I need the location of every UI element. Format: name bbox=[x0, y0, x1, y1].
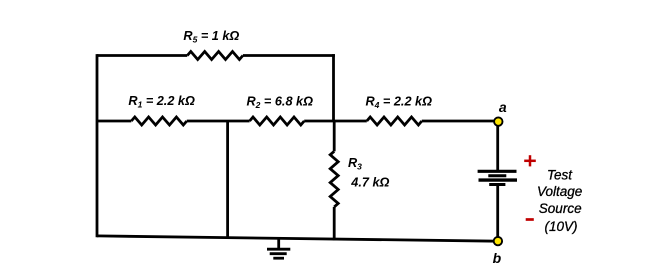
wire middle horizontal segment 2 bbox=[187, 120, 250, 123]
node b bbox=[494, 237, 502, 245]
annotation Test Voltage Source (10V) bbox=[537, 168, 582, 235]
polarity minus sign bbox=[526, 218, 534, 221]
svg-text:Voltage: Voltage bbox=[537, 184, 582, 199]
svg-text:Test: Test bbox=[547, 168, 573, 183]
wire top horizontal right segment bbox=[243, 54, 335, 57]
resistor R2 bbox=[250, 117, 305, 125]
polarity plus sign bbox=[524, 155, 536, 166]
wire top horizontal left segment bbox=[97, 54, 187, 57]
wire vertical branch between R1 and R2 bbox=[226, 121, 229, 238]
wire middle horizontal segment 4 bbox=[422, 120, 494, 123]
svg-text:b: b bbox=[493, 250, 502, 266]
wire battery branch upper bbox=[496, 122, 499, 171]
resistor R3 bbox=[330, 151, 338, 207]
svg-text:(10V): (10V) bbox=[545, 219, 578, 234]
wire left vertical bbox=[96, 54, 99, 237]
resistor R5 bbox=[187, 52, 243, 60]
wire middle horizontal segment 1 bbox=[97, 120, 131, 123]
wire bottom horizontal bbox=[97, 236, 498, 241]
voltage source V1 (test voltage source battery) bbox=[478, 171, 517, 184]
wire battery branch lower bbox=[496, 186, 499, 242]
svg-text:R5 = 1 kΩ: R5 = 1 kΩ bbox=[183, 29, 239, 45]
node a bbox=[494, 117, 502, 125]
wire R3 branch upper lead bbox=[333, 121, 336, 151]
svg-text:4.7 kΩ: 4.7 kΩ bbox=[350, 175, 389, 189]
resistor R4 bbox=[367, 117, 422, 125]
wire middle horizontal segment 3 bbox=[304, 120, 367, 123]
svg-text:a: a bbox=[499, 99, 507, 115]
svg-text:Source: Source bbox=[539, 201, 582, 216]
wire right vertical from top wire to middle wire bbox=[332, 54, 335, 121]
wire R3 branch lower lead bbox=[333, 207, 336, 241]
ground bbox=[267, 238, 290, 258]
resistor R1 bbox=[131, 117, 187, 125]
